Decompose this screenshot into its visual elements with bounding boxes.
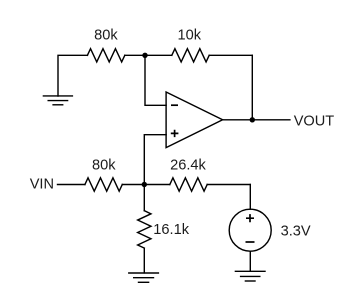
svg-text:10k: 10k [178, 28, 202, 44]
svg-text:16.1k: 16.1k [153, 222, 189, 238]
svg-text:80k: 80k [92, 158, 116, 174]
svg-text:VOUT: VOUT [294, 113, 335, 129]
svg-text:3.3V: 3.3V [281, 224, 311, 240]
svg-text:80k: 80k [94, 28, 118, 44]
svg-text:VIN: VIN [30, 177, 54, 193]
svg-text:26.4k: 26.4k [170, 158, 206, 174]
